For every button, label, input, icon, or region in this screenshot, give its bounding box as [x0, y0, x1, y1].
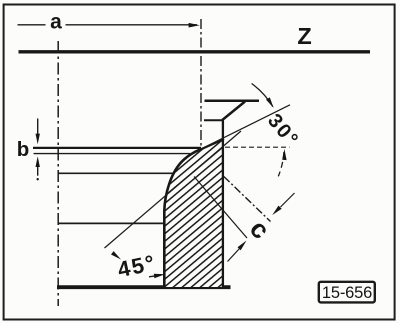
svg-text:15-656: 15-656	[322, 284, 372, 302]
svg-text:Z: Z	[297, 23, 311, 49]
svg-text:b: b	[17, 138, 30, 161]
svg-text:a: a	[50, 11, 62, 34]
